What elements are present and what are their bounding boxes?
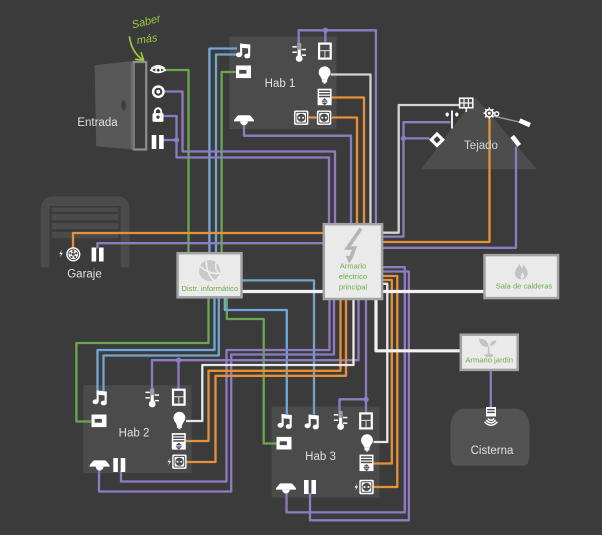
svg-text:Entrada: Entrada xyxy=(77,117,118,129)
svg-text:Hab 3: Hab 3 xyxy=(305,451,336,463)
svg-text:Hab 2: Hab 2 xyxy=(119,428,150,440)
svg-text:Tejado: Tejado xyxy=(464,140,498,152)
svg-text:principal: principal xyxy=(339,283,368,292)
svg-text:Cisterna: Cisterna xyxy=(471,445,514,457)
svg-text:eléctrico: eléctrico xyxy=(339,272,367,281)
svg-text:Armario: Armario xyxy=(340,262,367,271)
svg-text:Hab 1: Hab 1 xyxy=(265,78,296,90)
svg-text:Armario jardín: Armario jardín xyxy=(465,356,513,365)
svg-text:Garaje: Garaje xyxy=(67,269,102,281)
svg-text:Distr. informático: Distr. informático xyxy=(182,284,239,293)
svg-text:Sala de calderas: Sala de calderas xyxy=(496,282,553,291)
